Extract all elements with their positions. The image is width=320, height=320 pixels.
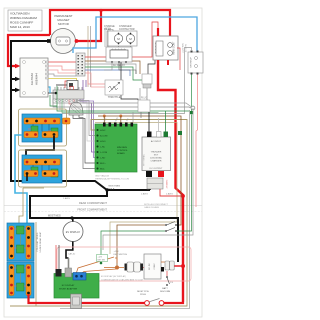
svg-text:120/240VAC: 120/240VAC <box>150 157 163 160</box>
svg-text:KEY SW: KEY SW <box>98 260 106 262</box>
svg-text:H-NO: H-NO <box>100 141 106 143</box>
svg-text:COMMUNICATION COAX-MINI BMS TO: COMMUNICATION COAX-MINI BMS TO COM <box>101 279 143 282</box>
svg-text:BOARD: BOARD <box>117 152 125 155</box>
GFI receptacle <box>188 51 203 75</box>
main contactor K1 <box>153 36 178 60</box>
wire inlet pins gray <box>105 28 110 47</box>
svg-text:CAT-5e: CAT-5e <box>68 253 76 256</box>
svg-text:CONTROL: CONTROL <box>117 150 128 152</box>
charger contactor K2 <box>107 31 137 46</box>
svg-text:MOST NEG: MOST NEG <box>48 215 61 218</box>
svg-text:THROTTLE: THROTTLE <box>108 96 121 99</box>
node controller M- arrow <box>15 77 21 81</box>
svg-text:1 AWG: 1 AWG <box>63 197 70 200</box>
charger DC connector <box>147 178 163 189</box>
rear battery box 1 <box>19 109 67 146</box>
svg-text:MOST POS: MOST POS <box>137 291 149 293</box>
node key junction <box>115 266 119 270</box>
svg-text:CONTACTOR: CONTACTOR <box>119 28 135 31</box>
node brown junction 2 <box>119 115 122 118</box>
relay on strip <box>67 81 78 90</box>
wire most pos (red bottom bus) <box>29 294 146 303</box>
wire charger pos (red) <box>160 189 181 196</box>
motor label <box>54 14 72 26</box>
wire contactor to AC relay 1 <box>118 46 120 48</box>
svg-text:POLE: POLE <box>140 294 146 296</box>
relay small box 12V <box>142 74 152 88</box>
wire contactor to AC relay 2 <box>130 46 132 48</box>
wire J1 brown <box>85 61 140 74</box>
ground green square 1 <box>190 111 193 114</box>
wire controller pin2 (pink) <box>49 66 106 84</box>
svg-text:B-COM: B-COM <box>100 136 107 138</box>
wire orange diag to shunt board <box>77 257 115 273</box>
wire green band <box>57 86 190 111</box>
wire P2 to red bus <box>174 265 181 267</box>
svg-text:EV DISPLAY: EV DISPLAY <box>62 284 75 287</box>
wire tan batt top <box>23 187 44 189</box>
wire controller B- stub (black) <box>11 89 18 91</box>
title block <box>8 10 42 31</box>
wire key diag2 to shunt <box>115 258 117 263</box>
fuse bar pack <box>63 118 71 124</box>
wire gray drops <box>59 100 61 111</box>
wire green band 2 <box>62 99 159 113</box>
node controller B+ arrow <box>15 64 21 68</box>
svg-text:MAIN CONT: MAIN CONT <box>173 41 176 54</box>
node bus junction <box>99 9 102 12</box>
wire inlet cyan down-left <box>73 17 197 53</box>
disconnect circle 2 <box>159 301 164 306</box>
ground green square 2 <box>178 131 182 135</box>
svg-text:VOLTWAGEN: VOLTWAGEN <box>10 12 29 16</box>
wire purple 2 <box>85 80 87 87</box>
wire khaki band <box>95 123 177 255</box>
node J2 feed <box>55 92 58 95</box>
svg-text:DISCONN: DISCONN <box>160 291 171 293</box>
wire gray band 1 <box>53 95 192 107</box>
wire controller pin1 (red) <box>49 61 77 63</box>
wire coax gray <box>68 258 70 268</box>
svg-text:EV DISPLAY (EV DISPLAY): EV DISPLAY (EV DISPLAY) <box>101 275 126 278</box>
wire brown drop 2 <box>120 116 122 123</box>
wire precharge red <box>177 48 180 70</box>
wire brown band <box>98 116 181 225</box>
wire green run left <box>101 231 165 262</box>
label most pos pole <box>137 291 149 296</box>
wire purple to BMS L-NO <box>80 99 98 158</box>
svg-text:FRT TUNNEL: FRT TUNNEL <box>144 154 146 166</box>
svg-text:GND: VBA-DxB: GND: VBA-DxB <box>95 175 110 178</box>
svg-text:MOTOR: MOTOR <box>58 22 69 26</box>
svg-text:2 AWG: 2 AWG <box>166 193 173 196</box>
wire J1 green <box>85 67 142 80</box>
label note disconnect <box>144 203 169 209</box>
wire J2 feed black <box>48 92 56 94</box>
svg-text:DC OUTPUT: DC OUTPUT <box>150 168 163 170</box>
connector P2 <box>165 261 174 270</box>
wire contactor top stub (red) <box>157 28 159 36</box>
wire box1 to plug gray <box>139 88 141 100</box>
wire purple to BMS L-COM <box>83 99 98 152</box>
wire controller pin3 (pink2) <box>49 70 106 87</box>
wire red pin jumper 2 <box>69 100 74 105</box>
wire charger AC black <box>148 112 150 132</box>
connector J2 terminal strip <box>53 87 84 102</box>
compartment separator rear/front <box>4 201 202 212</box>
svg-text:THUNDER: THUNDER <box>151 152 162 154</box>
svg-text:FRONT COMPARTMENT: FRONT COMPARTMENT <box>77 207 107 211</box>
svg-text:BUZ+: BUZ+ <box>100 163 106 165</box>
wire connector to dcdc (red) <box>143 267 144 269</box>
svg-text:L-NC: L-NC <box>100 147 106 149</box>
disconnect circle 1 <box>145 301 150 306</box>
wire most neg bus (black) <box>30 190 178 262</box>
motor M1 <box>51 29 76 54</box>
MiniBMS control board <box>95 117 137 172</box>
svg-text:BUZ-: BUZ- <box>100 169 105 171</box>
wire gray band bottom <box>60 110 190 309</box>
wire controller pin4 (gray) <box>49 74 77 76</box>
node junction circle right <box>191 106 195 110</box>
wire J1 gray <box>85 64 136 74</box>
wire gray band 2 <box>53 99 191 108</box>
node motor A2 terminal <box>75 39 79 43</box>
svg-text:UNDER REAR SEAT: UNDER REAR SEAT <box>39 231 42 252</box>
svg-text:L-COM: L-COM <box>100 152 107 154</box>
svg-text:EV DISPLAY: EV DISPLAY <box>66 231 81 234</box>
wire contactor aux black <box>148 60 155 74</box>
label charge inlet <box>104 25 135 31</box>
svg-text:POLE: POLE <box>109 188 115 190</box>
wire charger AC white <box>158 118 160 132</box>
svg-text:40 OHM: 40 OHM <box>186 44 188 52</box>
svg-text:PLUG: PLUG <box>141 98 147 100</box>
node most neg pole <box>105 188 108 191</box>
wire gray run <box>103 108 193 250</box>
svg-text:CHARGER: CHARGER <box>151 160 162 163</box>
wire charger neg (black) <box>149 189 151 190</box>
label coax note <box>101 275 143 282</box>
svg-text:CABLE 2/0 AWG: CABLE 2/0 AWG <box>144 206 159 209</box>
page border <box>4 8 202 317</box>
wire white to BMS H-NO <box>72 99 98 141</box>
connector J1 strip <box>76 53 85 76</box>
svg-text:GFI RECP: GFI RECP <box>191 57 193 68</box>
wire traction B+ top bus (red) <box>50 10 170 36</box>
wire motor A2 to bus (red) <box>78 10 101 41</box>
wire relay to plug black <box>121 62 138 100</box>
wire traction bus (red) contactor to bottom <box>158 60 183 302</box>
rear battery box 2 <box>19 150 67 187</box>
wire plug down stubs <box>132 112 134 122</box>
svg-text:2 AWG: 2 AWG <box>141 193 148 196</box>
wire key left <box>104 267 117 269</box>
plug small box <box>138 98 150 113</box>
wire controller M- stub (black) <box>11 78 18 80</box>
wire B+ to controller (red) <box>8 35 50 66</box>
svg-text:BATT: BATT <box>162 287 168 290</box>
label most neg pole <box>109 186 121 191</box>
svg-text:+12V: +12V <box>114 251 120 253</box>
front battery box A <box>7 223 34 261</box>
svg-text:MOST NEG: MOST NEG <box>109 186 121 188</box>
front battery box B <box>7 262 34 298</box>
node motor A1 terminal <box>47 39 51 43</box>
svg-text:ALLTRAX: ALLTRAX <box>30 73 34 85</box>
wire buzzer to BMS BUZ <box>73 117 98 163</box>
svg-text:KEY SWITCH: KEY SWITCH <box>114 254 128 256</box>
breaker CB1 <box>166 271 174 286</box>
wire motor A1 to controller (black) <box>11 41 150 190</box>
wire gray to BMS <box>76 99 98 136</box>
svg-text:DC-DC: DC-DC <box>149 263 151 270</box>
disconnect blade <box>149 299 160 303</box>
wire GFI gray loop <box>62 48 192 114</box>
shunt bottom connector <box>71 294 82 309</box>
svg-text:WIRING DIAGRAM: WIRING DIAGRAM <box>10 16 37 20</box>
wire controller pin5 (green) <box>49 79 77 91</box>
throttle box <box>105 80 123 99</box>
wire J2 red link <box>65 81 76 88</box>
svg-text:FOUR BATTERIES: FOUR BATTERIES <box>36 232 39 251</box>
wire batt1 to batt2 (black) <box>26 136 54 160</box>
wire front batt tan <box>35 222 37 306</box>
svg-text:L-NO: L-NO <box>100 158 106 160</box>
wire J1 to contactor coil (red thin) <box>85 36 152 57</box>
label batt disconn <box>160 287 171 293</box>
motor sense wires (tan+gray) <box>88 26 91 87</box>
svg-text:+12V: +12V <box>98 257 103 259</box>
svg-text:MAR 14, 2013: MAR 14, 2013 <box>10 25 30 29</box>
AC relay K3 <box>106 47 132 67</box>
wire key diag <box>82 269 116 273</box>
svg-text:CONV: CONV <box>154 263 156 270</box>
controller U1 <box>20 58 49 97</box>
wire GFI red down <box>196 75 198 208</box>
EV display gauge <box>63 222 83 242</box>
svg-text:AC INPUT: AC INPUT <box>151 140 162 143</box>
wire brown drop to BMS <box>103 116 105 123</box>
buzzer BZ1 <box>69 102 83 117</box>
node ev display tap <box>70 216 73 219</box>
node red junctions <box>181 194 185 198</box>
wire green U loop <box>50 95 57 106</box>
wire key right to connector <box>119 267 124 269</box>
wire J1 blue <box>85 70 130 76</box>
switch S2 <box>165 228 177 232</box>
key switch circuit outline (pink) <box>57 247 191 281</box>
node green dot <box>100 262 103 265</box>
connector pair P1 <box>125 262 144 272</box>
svg-text:SHUNT ADAPTER: SHUNT ADAPTER <box>59 288 78 291</box>
wire tan band <box>10 120 187 307</box>
wire inlet cyan 2 <box>49 87 51 93</box>
wire shunt feeds red <box>55 245 57 269</box>
wire ev display feed <box>72 218 74 222</box>
node brown junction 1 <box>103 115 106 118</box>
note under BMS <box>95 175 129 181</box>
wire brown switch left run to key junction <box>117 225 165 266</box>
wire tan batt drop <box>19 188 23 225</box>
svg-text:H-NC: H-NC <box>100 130 106 132</box>
wire buzzer to BMS BUZ- <box>79 117 98 169</box>
wire contactor aux stub red <box>167 60 169 65</box>
wire contactor coil thin red <box>152 22 158 36</box>
wire cyan batt loop <box>15 135 27 226</box>
node controller B- arrow <box>15 88 21 92</box>
svg-text:REAR COMPARTMENT: REAR COMPARTMENT <box>79 201 107 205</box>
svg-text:MINI BMS: MINI BMS <box>117 147 128 149</box>
svg-text:NOTE: ALL DISCONNECT: NOTE: ALL DISCONNECT <box>144 203 169 206</box>
wire GFI green down <box>191 75 193 112</box>
EV display shunt board <box>54 268 99 298</box>
wire red pin jumper 1 <box>70 87 74 91</box>
wire purple 1 <box>82 80 84 90</box>
wire AC relay pins down <box>104 62 136 74</box>
wire disconnect to bus <box>164 302 183 303</box>
charger <box>142 132 171 178</box>
svg-text:AXE4844: AXE4844 <box>35 73 39 85</box>
svg-text:THEREUUA-2NPTVSEMSU-TO-COM: THEREUUA-2NPTVSEMSU-TO-COM <box>95 178 129 181</box>
wire green switch run <box>177 115 192 232</box>
svg-text:SKY: SKY <box>154 155 159 157</box>
svg-text:2/0 AWG: 2/0 AWG <box>166 179 169 188</box>
switch S1 <box>165 222 177 226</box>
wire J2 black link <box>56 85 70 88</box>
DC-DC converter box <box>144 254 165 279</box>
label key green box <box>97 255 108 262</box>
label key switch <box>114 251 128 256</box>
svg-text:ROSS CUNNIFF: ROSS CUNNIFF <box>10 21 33 25</box>
wire batt2 neg stub <box>26 174 28 181</box>
wire ev display out <box>66 242 73 259</box>
wire charger AC green <box>165 111 167 132</box>
